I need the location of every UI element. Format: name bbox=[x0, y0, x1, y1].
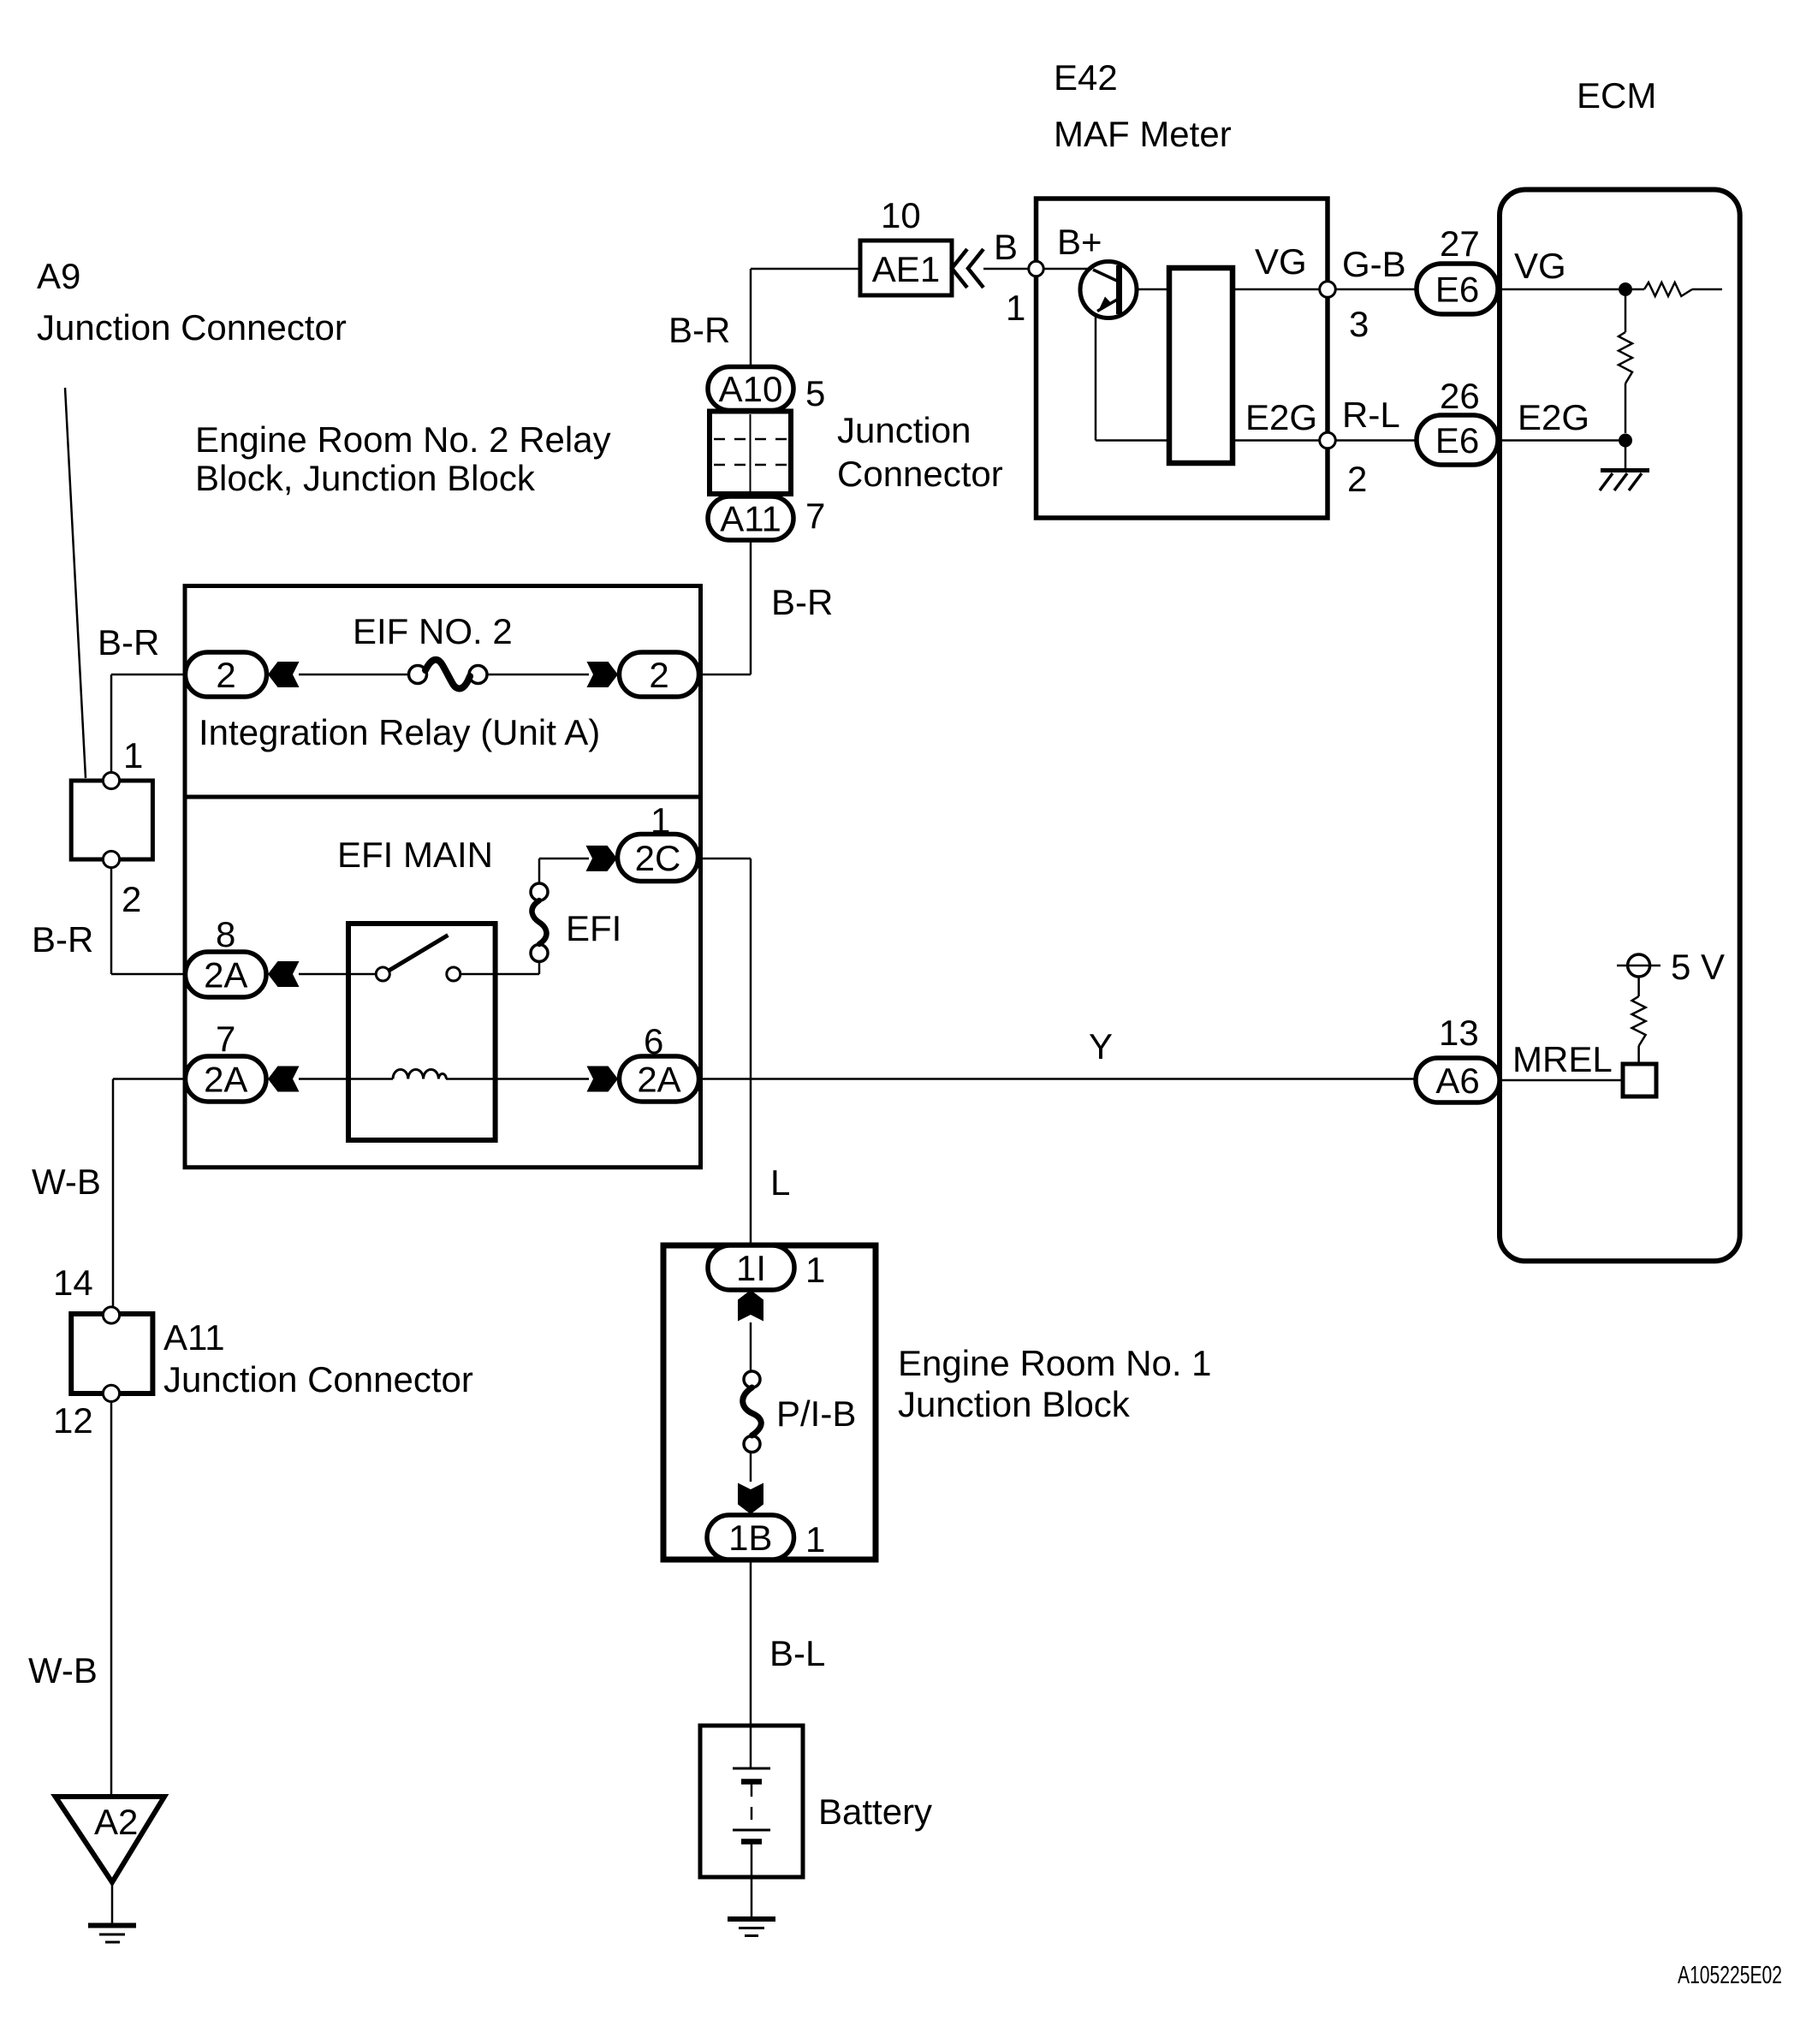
svg-text:Engine Room No. 1: Engine Room No. 1 bbox=[898, 1343, 1212, 1383]
wire 2C to L vertical bbox=[699, 858, 752, 860]
svg-text:B-R: B-R bbox=[32, 919, 93, 960]
connector A11 bbox=[708, 496, 793, 540]
svg-text:1I: 1I bbox=[736, 1248, 766, 1288]
wire from A9 to 2A8 bbox=[110, 859, 113, 974]
5V supply circle bbox=[1628, 954, 1650, 977]
svg-text:10: 10 bbox=[881, 195, 921, 235]
wire to E6 27 bbox=[1335, 288, 1417, 291]
junction connector A11 box bbox=[71, 1314, 152, 1393]
connector 2A pin7 bbox=[186, 1056, 267, 1102]
svg-text:A11: A11 bbox=[163, 1317, 225, 1358]
ground connector A2 triangle bbox=[56, 1797, 164, 1882]
svg-text:W-B: W-B bbox=[32, 1162, 101, 1202]
connector A6 pin13 bbox=[1416, 1058, 1500, 1102]
wire MREL bbox=[1500, 1079, 1623, 1082]
connector E6 pin27 bbox=[1417, 264, 1498, 314]
heater element rect bbox=[1169, 268, 1233, 463]
node A11 bottom bbox=[103, 1385, 119, 1401]
svg-text:3: 3 bbox=[1349, 304, 1369, 344]
arrow into 2 left bbox=[268, 662, 300, 687]
wire coil to 2A6 bbox=[446, 1078, 589, 1080]
wire EFI fuse to 2C bbox=[539, 858, 589, 860]
wire vertical to A10 bbox=[750, 269, 752, 368]
battery plates bbox=[733, 1768, 770, 1770]
connector 2C bbox=[618, 835, 698, 882]
emitter wire down bbox=[1095, 313, 1097, 441]
svg-text:1B: 1B bbox=[728, 1518, 772, 1558]
svg-text:B-L: B-L bbox=[769, 1633, 825, 1673]
MAF meter box E42 bbox=[1037, 199, 1328, 518]
svg-text:7: 7 bbox=[216, 1019, 235, 1059]
wire to fuse bbox=[299, 674, 409, 676]
svg-text:E2G: E2G bbox=[1245, 397, 1317, 437]
connector 1I bbox=[708, 1245, 794, 1290]
svg-text:Block, Junction Block: Block, Junction Block bbox=[195, 458, 536, 498]
svg-text:5 V: 5 V bbox=[1671, 947, 1725, 987]
wire 2 right to vertical bbox=[699, 674, 752, 676]
svg-text:Junction Connector: Junction Connector bbox=[37, 307, 347, 348]
wire E2G inside ECM bbox=[1498, 439, 1619, 442]
svg-text:B-R: B-R bbox=[98, 622, 159, 663]
relay block divider bbox=[185, 795, 701, 799]
wire A11 down to EIF row bbox=[750, 540, 752, 674]
svg-text:2A: 2A bbox=[637, 1060, 680, 1100]
svg-text:1: 1 bbox=[805, 1250, 825, 1290]
svg-text:EIF NO. 2: EIF NO. 2 bbox=[353, 611, 513, 651]
svg-text:B-R: B-R bbox=[771, 582, 833, 622]
fuse AE1 box bbox=[860, 241, 952, 295]
wire transistor to element bbox=[1137, 288, 1169, 291]
fuse EFI bbox=[531, 883, 548, 900]
svg-text:1: 1 bbox=[123, 735, 143, 775]
wire down from VG dot bbox=[1625, 296, 1627, 332]
wire resistor to square bbox=[1637, 1046, 1640, 1064]
svg-text:8: 8 bbox=[216, 914, 235, 954]
fuse EIF NO.2 bbox=[409, 666, 427, 684]
wire B-L battery bbox=[750, 1560, 752, 1768]
svg-text:2: 2 bbox=[649, 655, 668, 695]
svg-text:27: 27 bbox=[1440, 223, 1480, 264]
svg-text:13: 13 bbox=[1439, 1013, 1479, 1053]
svg-text:A6: A6 bbox=[1435, 1061, 1479, 1101]
svg-text:Battery: Battery bbox=[818, 1791, 932, 1832]
arrow into 2A pin6 bbox=[587, 1067, 619, 1092]
svg-text:MREL: MREL bbox=[1512, 1039, 1613, 1079]
svg-text:EFI: EFI bbox=[566, 908, 621, 948]
svg-text:7: 7 bbox=[805, 496, 825, 536]
svg-text:R-L: R-L bbox=[1342, 395, 1400, 435]
svg-text:A2: A2 bbox=[94, 1802, 138, 1842]
svg-text:L: L bbox=[770, 1162, 790, 1203]
wire element to VG node bbox=[1233, 288, 1328, 291]
svg-text:VG: VG bbox=[1514, 246, 1566, 286]
svg-text:2: 2 bbox=[216, 655, 235, 695]
wire in block lower bbox=[750, 1453, 752, 1482]
wire resistor to E2G dot bbox=[1625, 383, 1627, 433]
wire EFI fuse to switch bbox=[538, 961, 541, 974]
svg-text:G-B: G-B bbox=[1342, 244, 1406, 284]
switch contacts bbox=[376, 967, 389, 981]
switch blade bbox=[389, 936, 448, 971]
svg-text:B+: B+ bbox=[1057, 222, 1102, 262]
svg-text:VG: VG bbox=[1255, 241, 1307, 282]
svg-text:W-B: W-B bbox=[28, 1650, 98, 1690]
relay coil bbox=[393, 1070, 446, 1079]
svg-text:Engine Room No. 2 Relay: Engine Room No. 2 Relay bbox=[195, 419, 611, 460]
wire to E6 26 bbox=[1335, 439, 1417, 442]
resistor 5V vertical bbox=[1632, 996, 1646, 1046]
resistor horizontal VG bbox=[1644, 282, 1692, 296]
wire fuse to arrow bbox=[487, 674, 589, 676]
wire Y bbox=[699, 1078, 1417, 1080]
svg-text:E6: E6 bbox=[1435, 270, 1479, 310]
arrow up below 1I bbox=[738, 1290, 763, 1322]
svg-text:MAF Meter: MAF Meter bbox=[1054, 114, 1232, 154]
svg-text:1: 1 bbox=[1006, 288, 1025, 328]
connector E6 pin26 bbox=[1417, 415, 1498, 465]
wire in block upper bbox=[750, 1322, 752, 1371]
svg-text:AE1: AE1 bbox=[872, 249, 940, 289]
battery box bbox=[700, 1726, 803, 1877]
svg-text:Integration Relay (Unit A): Integration Relay (Unit A) bbox=[199, 712, 600, 752]
transistor in MAF bbox=[1080, 262, 1137, 318]
svg-text:2A: 2A bbox=[204, 1060, 247, 1100]
fusible link P/I-B bbox=[744, 1371, 760, 1387]
svg-text:E2G: E2G bbox=[1518, 397, 1589, 437]
node E2G pin2 bbox=[1320, 432, 1336, 449]
svg-text:A10: A10 bbox=[719, 369, 783, 409]
ground chassis inside ECM bbox=[1625, 447, 1627, 468]
junction connector box (dashed) bbox=[710, 412, 791, 495]
arrow into 2 right bbox=[587, 662, 619, 687]
wire 2A7 to coil bbox=[299, 1078, 393, 1080]
svg-text:1: 1 bbox=[805, 1519, 825, 1560]
node A9 pin1 bbox=[103, 772, 119, 788]
svg-text:Connector: Connector bbox=[837, 454, 1003, 494]
svg-text:E42: E42 bbox=[1054, 57, 1118, 98]
svg-text:12: 12 bbox=[53, 1400, 93, 1441]
svg-text:5: 5 bbox=[805, 373, 825, 413]
svg-text:26: 26 bbox=[1440, 376, 1480, 416]
svg-text:2A: 2A bbox=[204, 955, 247, 995]
junction connector A9 box bbox=[71, 781, 152, 859]
svg-text:P/I-B: P/I-B bbox=[776, 1393, 856, 1434]
svg-text:2: 2 bbox=[122, 879, 141, 919]
connector 2 left (EIF) bbox=[186, 652, 267, 697]
wire B-R from left to EIF bbox=[111, 674, 185, 676]
arrow into 2C bbox=[586, 846, 618, 871]
svg-text:B: B bbox=[994, 227, 1018, 267]
resistor vertical bbox=[1619, 332, 1632, 383]
svg-text:14: 14 bbox=[53, 1263, 93, 1303]
relay block box bbox=[185, 586, 701, 1168]
wire 2A8 to switch bbox=[299, 973, 376, 976]
node A11 top bbox=[103, 1307, 119, 1323]
wire VG inside ECM bbox=[1498, 288, 1619, 291]
wire 5V down bbox=[1637, 977, 1640, 996]
wire W-B down to A2 bbox=[110, 1401, 113, 1797]
wire element to E2G node bbox=[1233, 439, 1328, 442]
node A9 pin2 bbox=[103, 851, 119, 867]
svg-text:2: 2 bbox=[1347, 459, 1367, 499]
arrow into 2A pin7 bbox=[268, 1067, 300, 1092]
svg-text:Y: Y bbox=[1089, 1026, 1113, 1067]
ground symbol battery bbox=[728, 1916, 775, 1922]
svg-text:E6: E6 bbox=[1435, 420, 1479, 460]
wire battery to ground bbox=[751, 1844, 753, 1920]
connector 2A pin8 bbox=[186, 952, 267, 997]
svg-text:Junction Connector: Junction Connector bbox=[163, 1359, 473, 1399]
svg-text:A9: A9 bbox=[37, 256, 80, 296]
arrow down above 1B bbox=[738, 1483, 763, 1515]
MREL driver square bbox=[1623, 1064, 1656, 1096]
connector 2A pin6 bbox=[620, 1056, 699, 1102]
node B+ bbox=[1043, 268, 1092, 270]
wire A2 to ground bbox=[111, 1882, 114, 1923]
connector A10 bbox=[708, 367, 793, 411]
svg-text:A105225E02: A105225E02 bbox=[1678, 1962, 1782, 1989]
svg-text:B-R: B-R bbox=[668, 310, 730, 350]
wire AE1 left to A10 column bbox=[751, 268, 860, 270]
svg-text:A11: A11 bbox=[720, 499, 781, 539]
node VG pin3 bbox=[1320, 282, 1336, 298]
wire B to MAF bbox=[983, 268, 1029, 270]
connector 1B bbox=[707, 1515, 794, 1560]
svg-text:EFI MAIN: EFI MAIN bbox=[337, 835, 493, 875]
connector 2 right (EIF) bbox=[620, 652, 699, 697]
relay switch box bbox=[348, 924, 496, 1140]
svg-text:Junction: Junction bbox=[837, 410, 971, 450]
wire W-B from 2A7 bbox=[113, 1078, 185, 1080]
ECM box bbox=[1500, 190, 1740, 1262]
junction block box bbox=[663, 1245, 876, 1560]
pointer line A9 bbox=[65, 388, 86, 778]
junction dot E2G bbox=[1619, 434, 1632, 448]
ground symbol A2 bbox=[88, 1923, 136, 1928]
svg-text:Junction Block: Junction Block bbox=[898, 1384, 1131, 1424]
junction dot VG bbox=[1619, 282, 1632, 296]
svg-text:2C: 2C bbox=[635, 838, 681, 878]
arrow into 2A pin8 bbox=[268, 961, 300, 987]
chevrons male connector bbox=[952, 249, 967, 288]
svg-text:ECM: ECM bbox=[1577, 75, 1656, 116]
